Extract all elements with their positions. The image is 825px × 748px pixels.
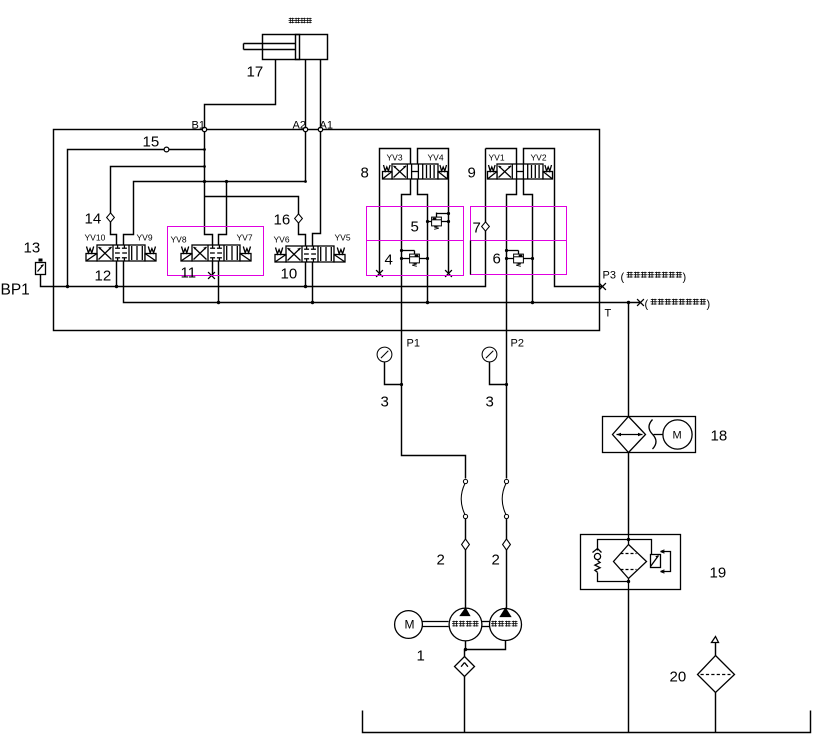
svg-text:YV9: YV9 xyxy=(137,233,153,243)
svg-text:5: 5 xyxy=(411,219,419,236)
svg-text:A1: A1 xyxy=(320,120,333,132)
svg-text:3: 3 xyxy=(486,394,494,411)
svg-text:4: 4 xyxy=(385,252,393,269)
svg-text:YV2: YV2 xyxy=(531,153,547,163)
svg-text:14: 14 xyxy=(85,211,102,228)
svg-text:M: M xyxy=(405,618,415,632)
svg-text:16: 16 xyxy=(274,212,291,229)
svg-text:19: 19 xyxy=(710,565,727,582)
svg-text:18: 18 xyxy=(711,428,728,445)
svg-text:YV4: YV4 xyxy=(428,153,444,163)
svg-text:M: M xyxy=(673,430,682,442)
svg-text:T: T xyxy=(605,308,612,320)
svg-text:P1: P1 xyxy=(407,338,420,350)
svg-text:B1: B1 xyxy=(192,120,205,132)
svg-text:YV10: YV10 xyxy=(85,233,106,243)
svg-text:9: 9 xyxy=(468,165,476,182)
svg-text:11: 11 xyxy=(181,265,197,282)
svg-text:): ) xyxy=(707,299,711,311)
svg-text:15: 15 xyxy=(143,134,160,151)
svg-text:BP1: BP1 xyxy=(1,282,30,299)
svg-text:2: 2 xyxy=(492,552,500,569)
svg-text:2: 2 xyxy=(437,552,445,569)
svg-text:YV5: YV5 xyxy=(335,233,351,243)
svg-text:3: 3 xyxy=(381,394,389,411)
svg-text:P3: P3 xyxy=(603,270,616,282)
svg-text:1: 1 xyxy=(417,648,425,665)
svg-text:YV3: YV3 xyxy=(387,153,403,163)
svg-text:8: 8 xyxy=(361,165,369,182)
svg-text:20: 20 xyxy=(670,669,687,686)
svg-text:YV1: YV1 xyxy=(489,153,505,163)
svg-text:): ) xyxy=(683,272,687,284)
svg-text:YV7: YV7 xyxy=(237,233,253,243)
svg-text:17: 17 xyxy=(247,64,264,81)
svg-text:(: ( xyxy=(621,272,625,284)
svg-text:YV6: YV6 xyxy=(274,235,290,245)
svg-text:7: 7 xyxy=(473,220,481,237)
svg-text:(: ( xyxy=(645,299,649,311)
svg-text:10: 10 xyxy=(281,266,298,283)
svg-text:P2: P2 xyxy=(511,338,524,350)
svg-text:12: 12 xyxy=(95,268,112,285)
svg-text:A2: A2 xyxy=(293,120,306,132)
svg-text:13: 13 xyxy=(24,240,41,257)
svg-text:YV8: YV8 xyxy=(171,235,187,245)
svg-text:6: 6 xyxy=(493,251,501,268)
